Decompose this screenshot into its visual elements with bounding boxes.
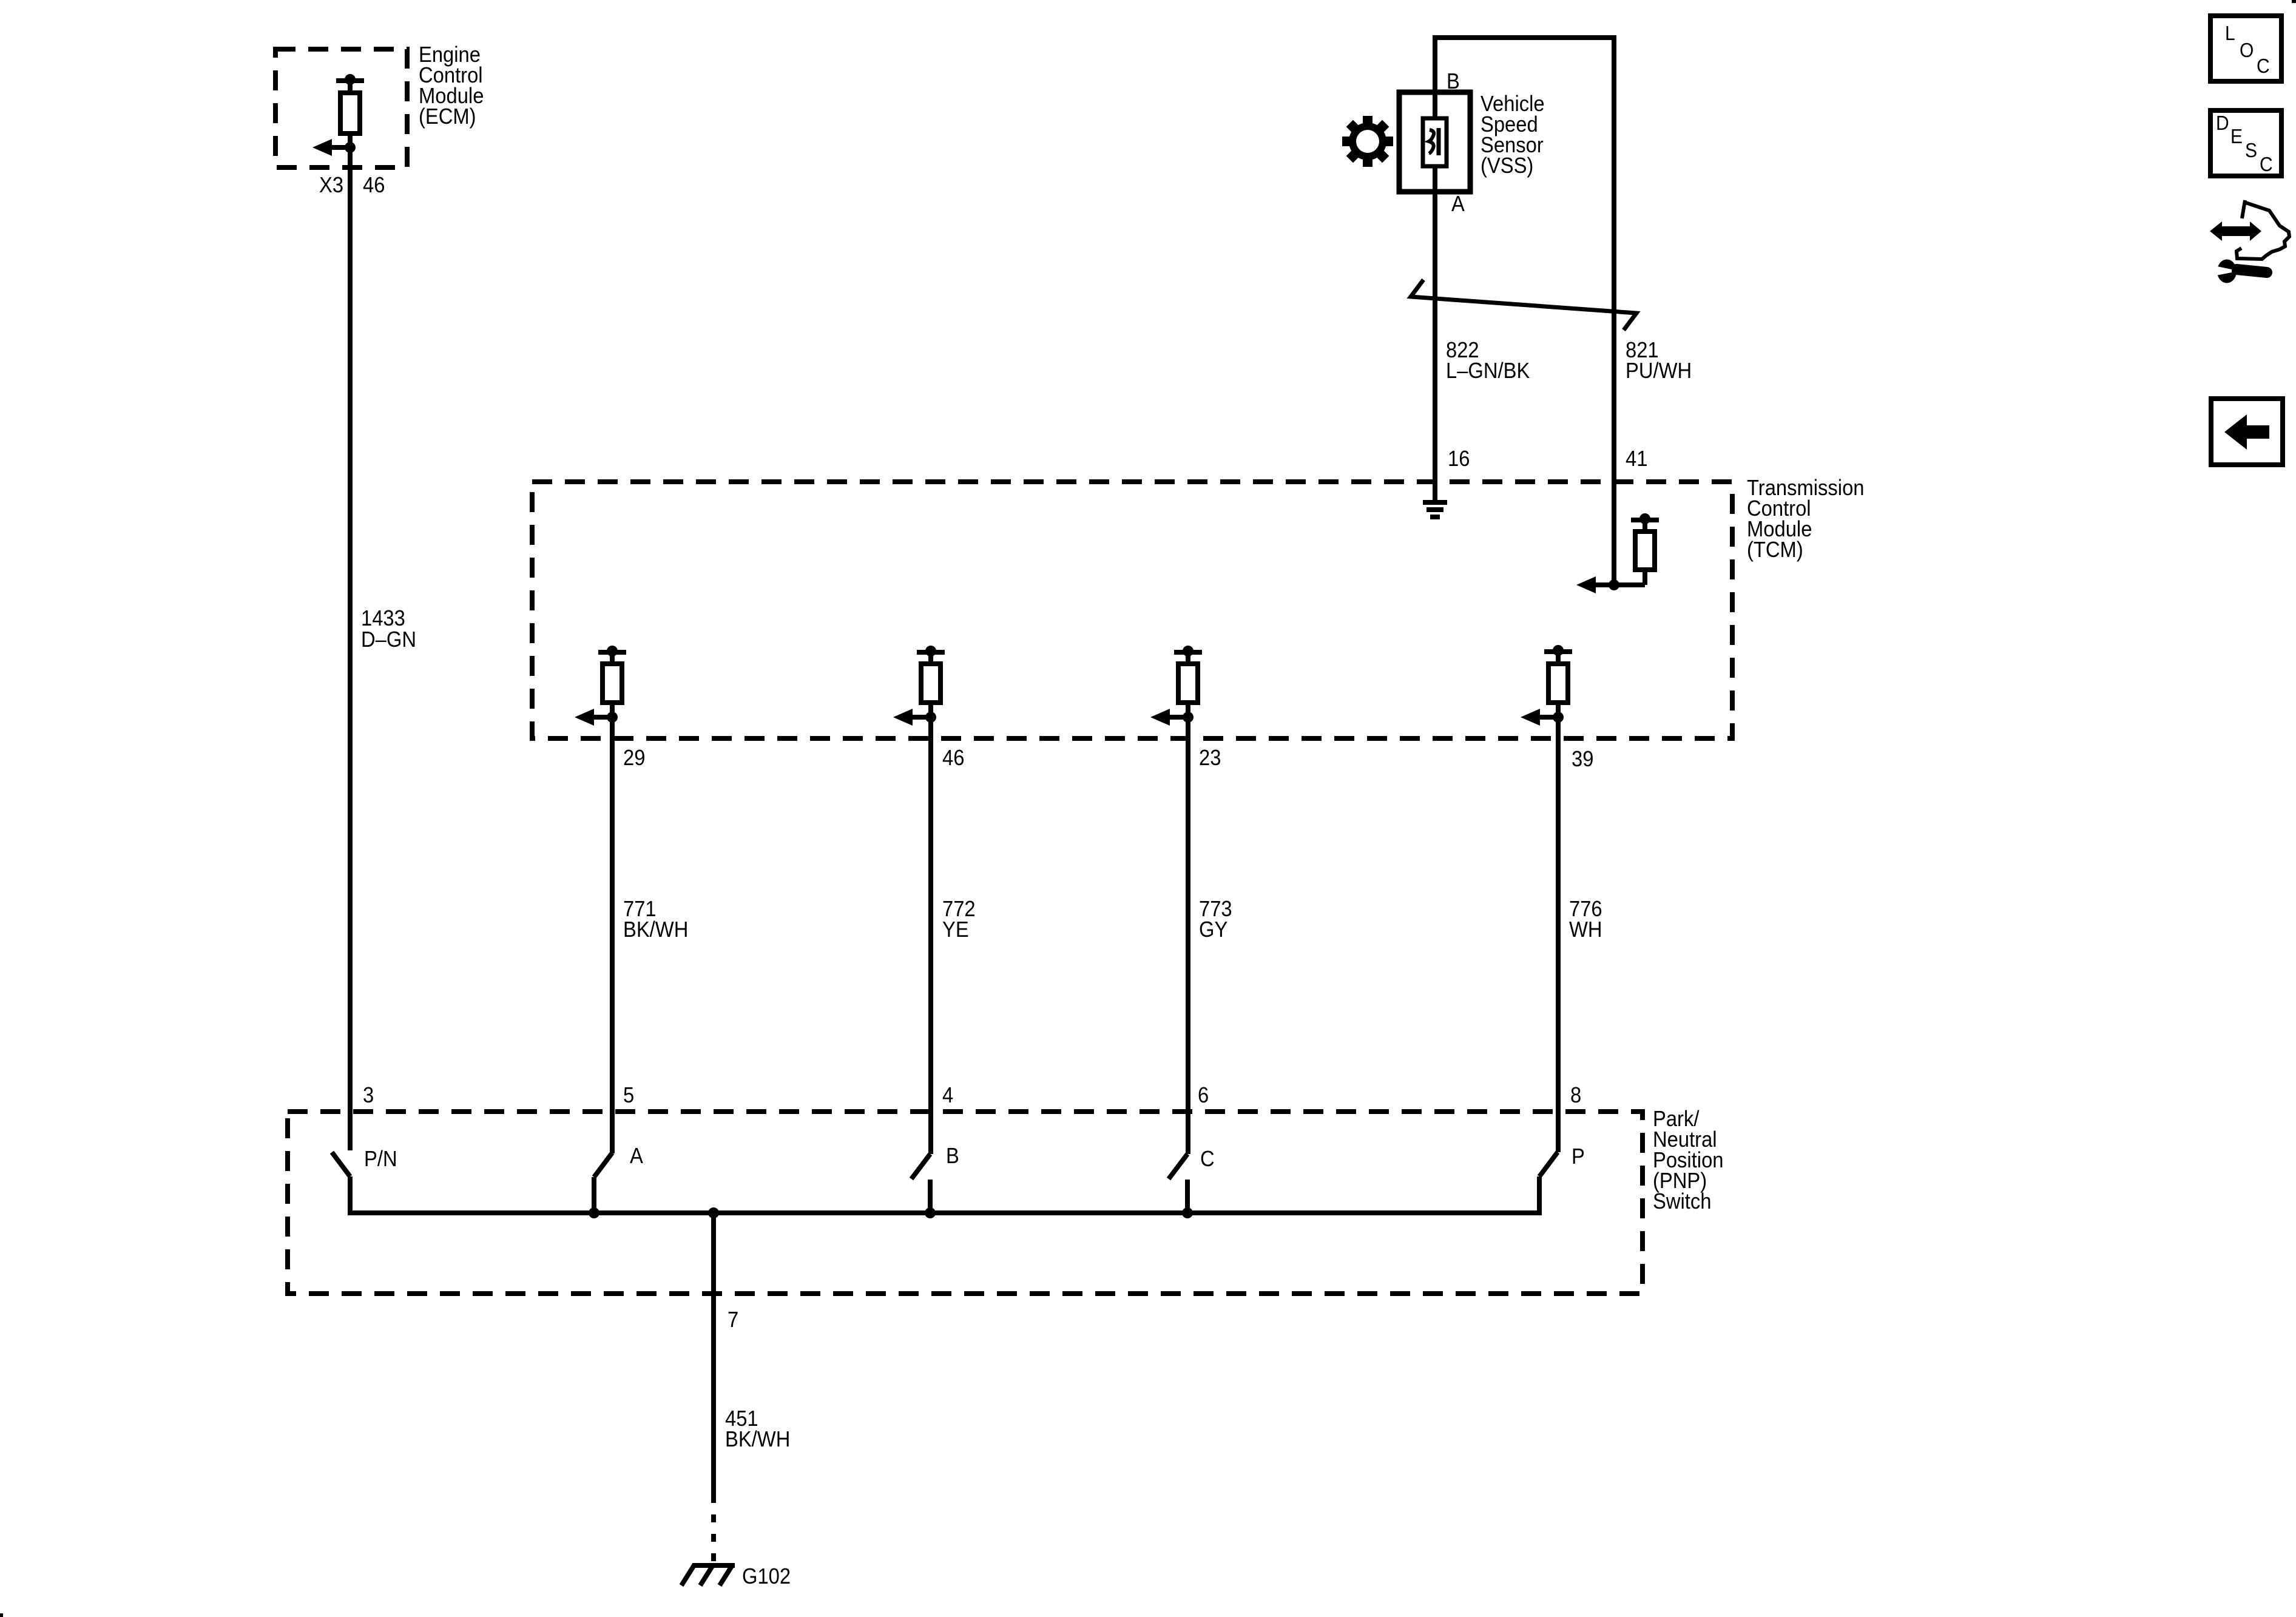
wire label 1433 D-GN: [361, 607, 416, 652]
ground inside TCM (pin 16): [1423, 502, 1447, 517]
TCM text label: [1747, 476, 1865, 562]
PNP switch dashed box: [288, 1112, 1643, 1294]
svg-text:E: E: [2230, 125, 2243, 148]
dashed wire segment to G102: [711, 1495, 716, 1565]
svg-text:C: C: [2260, 153, 2273, 176]
harness/wrench icon: [2209, 200, 2289, 283]
svg-text:L–GN/BK: L–GN/BK: [1446, 359, 1530, 383]
svg-text:5: 5: [623, 1084, 634, 1108]
svg-text:(VSS): (VSS): [1481, 154, 1533, 178]
svg-text:4: 4: [942, 1084, 953, 1108]
back arrow nav box: [2211, 399, 2283, 465]
wire: PNP pin 7 to ground (circuit 451 BK/WH): [711, 1213, 716, 1495]
svg-text:(ECM): (ECM): [419, 105, 476, 129]
svg-text:23: 23: [1199, 746, 1221, 771]
arrow at TCM pin 46 node: [893, 709, 936, 726]
PNP switch text label: [1653, 1107, 1724, 1214]
wire label 772 YE: [942, 897, 976, 942]
svg-text:16: 16: [1448, 447, 1470, 471]
svg-text:C: C: [1200, 1147, 1215, 1172]
svg-text:P: P: [1572, 1145, 1585, 1169]
pull-up resistor on TCM pin 46: [917, 646, 945, 717]
switch C: [1169, 1154, 1187, 1213]
ECM signal arrow: [312, 139, 356, 156]
arrow at TCM pin 23 node: [1150, 709, 1194, 726]
resistor inside ECM: [340, 93, 360, 133]
twisted pair marker across wires 822/821: [1411, 280, 1636, 330]
svg-text:6: 6: [1198, 1084, 1209, 1108]
common bus wire inside PNP switch: [348, 1210, 1542, 1215]
page corner mark top-right: [2292, 0, 2296, 3]
svg-text:X3: X3: [319, 174, 343, 198]
wire label 773 GY: [1199, 897, 1232, 942]
pull-up resistor on TCM pin 29: [598, 646, 626, 717]
svg-text:A: A: [1451, 192, 1465, 217]
wire label 822 L-GN/BK: [1446, 339, 1530, 383]
ECM internal supply T-bar: [336, 74, 364, 85]
LOC nav box: [2210, 16, 2281, 81]
svg-text:L: L: [2225, 22, 2235, 45]
wire: VSS loop top segment: [1435, 38, 1614, 97]
ECM text label: [419, 43, 484, 129]
wire label 451 BK/WH: [725, 1407, 790, 1452]
svg-text:D–GN: D–GN: [361, 628, 416, 652]
svg-text:Switch: Switch: [1653, 1190, 1711, 1214]
svg-text:BK/WH: BK/WH: [725, 1428, 790, 1452]
VSS sensor box: [1399, 92, 1470, 192]
arrow at TCM pin 41 node: [1576, 576, 1619, 593]
wire: TCM pin 46 to switch B (circuit 772 YE): [928, 717, 933, 1154]
arrow at TCM pin 39 node: [1521, 709, 1564, 726]
svg-text:(TCM): (TCM): [1747, 538, 1803, 562]
wire label 821 PU/WH: [1626, 339, 1692, 383]
wire label 776 WH: [1569, 897, 1602, 942]
page corner mark bottom-left: [0, 1613, 3, 1617]
svg-text:B: B: [1447, 70, 1460, 94]
svg-text:29: 29: [623, 746, 645, 771]
junction node switch B: [925, 1207, 936, 1218]
svg-text:8: 8: [1570, 1084, 1581, 1108]
VSS text label: [1481, 92, 1545, 178]
wire: TCM pin 39 to switch P (circuit 776 WH): [1556, 717, 1561, 1152]
svg-text:G102: G102: [742, 1565, 791, 1589]
svg-text:YE: YE: [942, 918, 969, 942]
VSS inductive element: [1423, 118, 1447, 166]
svg-text:46: 46: [363, 174, 385, 198]
svg-text:B: B: [946, 1144, 959, 1169]
pull-up resistor on TCM pin 39: [1544, 645, 1572, 717]
wire: ECM pin 46 to PNP switch P/N (circuit 1433 D-GN): [348, 81, 353, 1150]
svg-text:P/N: P/N: [364, 1147, 397, 1172]
junction node switch A: [589, 1207, 599, 1218]
pull-up resistor on TCM pin 23: [1174, 646, 1202, 717]
svg-text:BK/WH: BK/WH: [623, 918, 688, 942]
svg-text:7: 7: [728, 1308, 738, 1332]
TCM dashed box: [532, 482, 1732, 738]
svg-text:PU/WH: PU/WH: [1626, 359, 1692, 383]
junction node pin 7: [708, 1207, 719, 1218]
switch P: [1539, 1152, 1558, 1215]
DESC nav box: [2210, 110, 2281, 176]
switch B: [911, 1154, 930, 1213]
pull-up resistor on TCM pin 41: [1596, 513, 1659, 585]
svg-text:S: S: [2245, 139, 2257, 162]
wire: VSS pin A down to TCM pin 41 (circuit 821): [1612, 35, 1616, 585]
gear icon (speed sensor rotor): [1342, 116, 1393, 167]
svg-text:39: 39: [1572, 748, 1593, 772]
svg-text:O: O: [2240, 39, 2254, 62]
svg-text:46: 46: [942, 746, 964, 771]
wire through VSS box: [1433, 92, 1437, 192]
wire label 771 BK/WH: [623, 897, 688, 942]
switch P/N: [332, 1152, 350, 1215]
svg-text:D: D: [2216, 112, 2229, 135]
wire: TCM pin 29 to switch A (circuit 771 BK/WH): [610, 717, 615, 1153]
svg-text:A: A: [630, 1144, 643, 1169]
ground G102 symbol: [681, 1564, 735, 1585]
svg-text:WH: WH: [1569, 918, 1602, 942]
svg-text:C: C: [2257, 55, 2270, 78]
arrow at TCM pin 29 node: [575, 709, 618, 726]
svg-text:1433: 1433: [361, 607, 405, 631]
ECM dashed box: [275, 49, 407, 167]
wire: VSS pin B down through sensor to TCM pin 16 (circuit 822): [1433, 35, 1437, 500]
wire: TCM pin 23 to switch C (circuit 773 GY): [1186, 717, 1190, 1154]
svg-text:41: 41: [1626, 447, 1647, 471]
switch A: [594, 1153, 612, 1213]
junction node switch C: [1182, 1207, 1193, 1218]
svg-text:GY: GY: [1199, 918, 1227, 942]
svg-text:3: 3: [363, 1084, 374, 1108]
